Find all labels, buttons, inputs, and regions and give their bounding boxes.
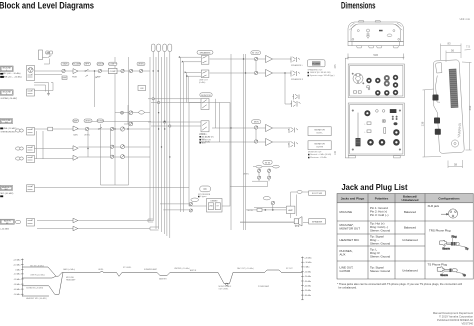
svg-text:536: 536	[373, 53, 378, 57]
svg-text:100: 100	[334, 150, 337, 155]
svg-text:MIC/LINE: MIC/LINE	[340, 210, 353, 214]
svg-text:4 BUS:: 4 BUS:	[200, 134, 206, 136]
pot sum2	[129, 122, 133, 126]
svg-text:XLR jack: XLR jack	[428, 204, 440, 208]
svg-text:GAIN (+4 dBu): GAIN (+4 dBu)	[63, 268, 75, 271]
out pots speakers	[254, 57, 257, 74]
svg-text:MIC IN (-30 dBu): MIC IN (-30 dBu)	[30, 265, 44, 267]
TS plug drawing	[437, 267, 466, 277]
svg-text:SPEAKERS L: SPEAKERS L	[291, 64, 303, 67]
wire monitor L R	[212, 127, 288, 129]
svg-text:+48V: +48V	[45, 53, 50, 55]
amp triangle aux R	[73, 226, 78, 231]
input sub text	[0, 73, 22, 230]
svg-text:SPEAKER: SPEAKER	[312, 221, 323, 224]
monitor amp triangles	[266, 124, 273, 131]
svg-text:1-KNOB: 1-KNOB	[96, 64, 104, 66]
svg-text:0 dBu: 0 dBu	[304, 267, 309, 269]
svg-text:-20 dBu: -20 dBu	[304, 276, 311, 278]
svg-text:Unit: mm: Unit: mm	[460, 17, 470, 21]
speakers sub text	[199, 80, 209, 85]
footnote	[337, 282, 462, 290]
x junction	[121, 111, 124, 114]
pot level1	[121, 69, 124, 72]
svg-text:-30 dBu: -30 dBu	[14, 284, 21, 286]
svg-text:LINE IN (-10 dBu): LINE IN (-10 dBu)	[30, 274, 45, 276]
right level axis	[301, 257, 304, 301]
st-in summing pots	[115, 105, 150, 124]
bus crossing dots	[153, 70, 171, 157]
table grid	[337, 194, 473, 280]
svg-text:3/4: 3/4	[5, 122, 8, 124]
USB BT box	[207, 199, 223, 213]
side dims	[423, 44, 472, 169]
wire ch2	[34, 128, 150, 130]
svg-text:-60 dBu: -60 dBu	[304, 295, 311, 297]
svg-text:345: 345	[334, 64, 337, 69]
amp triangle ch4	[73, 155, 78, 160]
ch2 pills	[73, 119, 104, 122]
svg-text:SPEAKERS: SPEAKERS	[200, 51, 211, 54]
svg-text:(0 dBu): (0 dBu)	[199, 82, 206, 84]
svg-text:COMP™: COMP™	[109, 63, 117, 66]
pot bal1	[139, 69, 142, 72]
foot sw oval	[297, 190, 302, 193]
svg-text:1: 1	[6, 70, 7, 72]
svg-text:Manual Development Department: Manual Development Department	[433, 311, 473, 315]
USB/BT oval	[191, 198, 199, 202]
monitor sub text	[199, 134, 210, 144]
wire bus joins	[148, 219, 159, 230]
svg-text:SP OUT: SP OUT	[286, 268, 294, 270]
front XLR combo	[352, 73, 364, 84]
amp triangle ch3	[73, 146, 78, 151]
svg-text:SPEAKERS OUT:: SPEAKERS OUT:	[308, 69, 324, 72]
speaker symbol	[294, 217, 302, 227]
svg-text:+20 dBu: +20 dBu	[13, 259, 20, 261]
svg-text:4 types: 4 types	[200, 195, 206, 198]
speakers switch box L	[201, 56, 209, 78]
svg-text:Unbalanced: Unbalanced	[402, 268, 418, 272]
svg-text:Sleeve: Ground: Sleeve: Ground	[370, 242, 390, 246]
sub text ch2	[73, 134, 90, 137]
svg-text:(-24 dBV): (-24 dBV)	[1, 228, 10, 230]
svg-text:AUX: AUX	[340, 253, 346, 257]
left level axis	[21, 259, 24, 297]
svg-text:MONITOR: MONITOR	[314, 143, 325, 145]
AUX/ST IN section	[263, 160, 272, 164]
sum oval	[139, 111, 145, 114]
wire bus verticals	[150, 52, 170, 239]
svg-text:GUITAR IN (-26 dBV): GUITAR IN (-26 dBV)	[26, 286, 44, 289]
svg-text:LEVEL: LEVEL	[138, 64, 145, 66]
svg-text:* These jacks also can be conn: * These jacks also can be connected with…	[337, 282, 462, 286]
svg-text:Sleeve: Sleeve	[440, 274, 448, 277]
monitor switch boxes	[201, 99, 209, 132]
svg-text:+20 dBu: +20 dBu	[304, 257, 311, 259]
body text	[340, 204, 451, 273]
svg-text:POWER: POWER	[312, 63, 320, 65]
svg-text:© 2019 Yamaha Corporation: © 2019 Yamaha Corporation	[439, 315, 474, 319]
amp triangle ch1	[73, 69, 78, 74]
speaker jacks L R	[290, 57, 300, 77]
monitor pots	[254, 126, 257, 143]
svg-text:GAIN: GAIN	[63, 63, 68, 66]
svg-text:TS Phone Plug: TS Phone Plug	[428, 262, 448, 266]
jack small ovals ch2-4	[15, 129, 23, 160]
svg-text:Nominal: +4 dBu (10 kΩ): Nominal: +4 dBu (10 kΩ)	[310, 154, 331, 156]
table header fill	[337, 194, 473, 203]
monitor jacks	[288, 127, 298, 148]
svg-text:Balanced: Balanced	[404, 226, 416, 230]
svg-text:FOOT SW: FOOT SW	[312, 193, 323, 195]
svg-text:Dynamic range: 108 dB (typ.): Dynamic range: 108 dB (typ.)	[310, 74, 335, 77]
svg-text:AMP IN: AMP IN	[190, 269, 197, 272]
svg-text:LINE (-24 dBV): LINE (-24 dBV)	[3, 128, 17, 130]
svg-text:TRS Phone Plug: TRS Phone Plug	[429, 228, 451, 232]
ch2 switch	[98, 127, 102, 129]
svg-text:1000 W (LF: 8Ω HF: 8Ω): 1000 W (LF: 8Ω HF: 8Ω)	[310, 72, 331, 74]
svg-text:-50 dBu: -50 dBu	[14, 294, 21, 296]
level annotations	[26, 265, 294, 300]
svg-text:LEVEL: LEVEL	[85, 121, 92, 123]
wire trunk: channel + output horizontal lines	[34, 52, 297, 239]
POWER box	[308, 60, 326, 67]
power amp triangle L	[266, 55, 273, 62]
svg-text:Polarities: Polarities	[375, 196, 389, 200]
amp triangle ch2	[73, 126, 78, 131]
svg-text:Balanced: Balanced	[404, 210, 416, 214]
sub switch glyphs under ch1	[86, 75, 99, 78]
svg-text:LIMITER (+10 dBu): LIMITER (+10 dBu)	[174, 268, 190, 270]
svg-text:58: 58	[454, 163, 458, 167]
svg-text:MONITOR: MONITOR	[201, 95, 211, 97]
svg-text:56: 56	[451, 49, 455, 53]
svg-text:+10 dBu: +10 dBu	[13, 265, 20, 267]
input label pills MIC/LINE 1	[0, 66, 21, 224]
pot comp	[98, 69, 101, 72]
jack box ch2	[27, 128, 35, 227]
svg-text:-50 dBu: -50 dBu	[304, 290, 311, 292]
FOOT SW label	[309, 191, 326, 195]
svg-text:Sleeve: Ground: Sleeve: Ground	[370, 269, 390, 273]
svg-text:Jack and Plug List: Jack and Plug List	[342, 182, 408, 192]
svg-text:Configurations: Configurations	[438, 196, 460, 200]
jack box combo ch1	[27, 66, 35, 81]
foot pot	[271, 201, 274, 204]
header text	[341, 195, 460, 203]
ground sym	[47, 91, 50, 96]
fx pots	[189, 202, 192, 212]
amp triangle aux L	[73, 218, 78, 223]
svg-text:POWER AMP: POWER AMP	[258, 285, 270, 288]
svg-text:293: 293	[468, 105, 472, 110]
wire headset mic	[34, 187, 189, 189]
jack box mic2	[27, 89, 35, 96]
wire ch4	[34, 157, 150, 159]
bus pills vertical	[151, 44, 171, 52]
svg-text:ST IN: ST IN	[265, 162, 271, 164]
component pill row ch1	[61, 62, 145, 65]
FX pill	[200, 186, 211, 192]
svg-text:138: 138	[421, 121, 425, 126]
svg-text:Sleeve: Sleeve	[442, 248, 450, 251]
pot GAIN	[62, 69, 65, 72]
level trace MIC IN	[22, 267, 302, 296]
svg-text:PEAK: PEAK	[72, 76, 78, 79]
big DSP box	[189, 103, 230, 207]
svg-text:LIM: LIM	[140, 88, 144, 90]
svg-text:LEVEL: LEVEL	[243, 174, 249, 176]
pot pan1	[129, 69, 132, 72]
svg-text:VDS7340: VDS7340	[461, 322, 473, 326]
svg-text:ST OUT: ST OUT	[252, 53, 260, 55]
wire speakers L R	[210, 58, 291, 60]
wire crossing horizontals	[88, 99, 201, 210]
front lower controls	[352, 109, 401, 150]
svg-text:FX: FX	[204, 188, 207, 191]
wire ch3	[34, 147, 150, 149]
svg-text:LEVEL: LEVEL	[98, 269, 104, 271]
MONITOR label pill	[200, 93, 212, 97]
pot sum1	[129, 111, 133, 115]
svg-text:SUMMING AMP: SUMMING AMP	[144, 268, 158, 271]
svg-text:MONITOR: MONITOR	[202, 139, 212, 141]
svg-text:83: 83	[447, 42, 451, 46]
wire long verticals	[37, 57, 129, 185]
svg-text:Pin 3: Cold (–): Pin 3: Cold (–)	[370, 213, 389, 217]
svg-text:HEADSET MIC: HEADSET MIC	[340, 238, 360, 242]
svg-text:USB/BT: USB/BT	[210, 201, 218, 203]
svg-text:Jacks and Plugs: Jacks and Plugs	[341, 196, 365, 200]
svg-text:GAIN: GAIN	[73, 134, 78, 137]
AMP box	[286, 206, 295, 213]
svg-text:MIC (-60 – -16 dBu): MIC (-60 – -16 dBu)	[3, 73, 21, 75]
ST OUT pill	[251, 51, 261, 55]
SPEAKER label	[309, 219, 326, 224]
hpf block under	[62, 76, 67, 79]
MONITOR OUT pill	[252, 120, 261, 124]
svg-text:7.5: 7.5	[466, 45, 470, 49]
svg-text:STEREO/MONO: STEREO/MONO	[1, 132, 16, 134]
svg-text:Maximum: +24 dBu: Maximum: +24 dBu	[310, 157, 326, 159]
svg-text:MONITOR OUT:: MONITOR OUT:	[308, 152, 322, 154]
legend in box	[200, 134, 214, 145]
side view	[434, 60, 465, 153]
switch HPF	[85, 69, 90, 71]
monitor out jacks	[291, 94, 301, 107]
svg-text:Unbalanced: Unbalanced	[402, 238, 418, 242]
PHONES label boxes	[308, 127, 331, 150]
svg-text:-10 dBu: -10 dBu	[304, 271, 311, 273]
svg-text:MONITOR: MONITOR	[314, 129, 325, 131]
svg-text:AMP: AMP	[73, 120, 78, 123]
svg-text:Dimensions: Dimensions	[341, 1, 376, 12]
svg-text:HEADSET MIC (-40 dBV): HEADSET MIC (-40 dBV)	[26, 297, 47, 300]
comp box	[109, 68, 118, 73]
ch2 pots	[85, 127, 124, 159]
svg-text:DAC OUT (+10 dBu): DAC OUT (+10 dBu)	[237, 267, 254, 270]
ch2 inline box	[48, 127, 53, 131]
svg-text:-40 dBu: -40 dBu	[304, 286, 311, 288]
svg-text:Sleeve: Ground: Sleeve: Ground	[370, 229, 390, 233]
power amp triangle R	[266, 69, 273, 76]
top view	[347, 21, 405, 60]
wire bus returns right	[181, 57, 202, 212]
wire aux L R	[37, 221, 153, 229]
svg-text:MASTER: MASTER	[159, 278, 167, 281]
TRS plug drawing	[440, 235, 469, 250]
svg-text:Sleeve: Ground: Sleeve: Ground	[370, 255, 390, 259]
svg-text:-40 dBu: -40 dBu	[14, 289, 21, 291]
guitar jack return loop	[34, 83, 53, 92]
svg-text:-10 dBu: -10 dBu	[14, 274, 21, 276]
limiter box	[138, 86, 146, 91]
svg-text:2: 2	[6, 94, 7, 96]
svg-text:-30 dBu: -30 dBu	[304, 281, 311, 283]
svg-text:Block and Level Diagrams: Block and Level Diagrams	[0, 1, 94, 12]
wire 48V feed	[41, 58, 50, 65]
svg-text:OUT LEVEL: OUT LEVEL	[219, 288, 229, 290]
svg-text:COMP: COMP	[110, 71, 117, 73]
XLR jack drawing	[441, 209, 458, 218]
svg-text:Unbalanced: Unbalanced	[401, 198, 418, 202]
svg-text:HEAD AMP: HEAD AMP	[66, 278, 76, 281]
svg-text:Ring: Ring	[452, 235, 458, 238]
svg-text:GUITAR (-26 dBV): GUITAR (-26 dBV)	[1, 97, 18, 100]
svg-text:MIC (-40 dBV): MIC (-40 dBV)	[1, 193, 14, 195]
wire guitar amp out	[240, 208, 296, 223]
svg-text:MONITOR OUT: MONITOR OUT	[340, 227, 361, 231]
svg-text:Published 03/2019 MWEM-A0: Published 03/2019 MWEM-A0	[437, 318, 474, 322]
svg-text:OUT L: OUT L	[316, 133, 323, 135]
front view	[345, 58, 404, 158]
svg-text:0 dBu: 0 dBu	[15, 270, 20, 272]
svg-text:ST LEVEL: ST LEVEL	[123, 267, 131, 269]
SPEAKERS label pill	[197, 51, 213, 55]
48V phantom	[39, 50, 53, 60]
svg-text:ST (L), ST (R): ST (L), ST (R)	[202, 136, 214, 138]
wire ch1 main	[34, 70, 150, 72]
svg-text:MON: MON	[254, 122, 259, 124]
svg-text:LINE (-34 – +10 dBu): LINE (-34 – +10 dBu)	[3, 77, 22, 79]
junction dots	[87, 58, 285, 149]
wire foot sw chain	[230, 181, 309, 222]
svg-text:LEVEL: LEVEL	[84, 135, 90, 137]
svg-text:+10 dBu: +10 dBu	[304, 262, 311, 264]
svg-text:GUITAR: GUITAR	[340, 269, 351, 273]
svg-text:SPEAKERS R: SPEAKERS R	[291, 78, 304, 81]
svg-text:AMP: AMP	[288, 209, 293, 212]
svg-text:MIC AMP: MIC AMP	[72, 63, 81, 66]
svg-text:be unbalanced.: be unbalanced.	[339, 286, 358, 290]
svg-text:ST/MN: ST/MN	[97, 121, 104, 123]
svg-text:-20 dBu: -20 dBu	[14, 279, 21, 281]
svg-text:OUT R: OUT R	[316, 147, 323, 149]
fx return oval	[263, 197, 270, 200]
front knobs upper (ring style)	[366, 75, 398, 96]
